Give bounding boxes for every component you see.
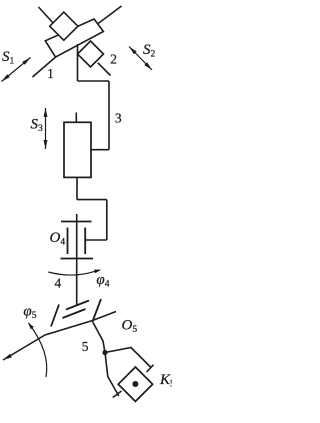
svg-text:φ5: φ5 [23, 303, 36, 321]
svg-text:O4: O4 [50, 230, 66, 248]
svg-text:φ4: φ4 [96, 272, 109, 290]
svg-text:1: 1 [47, 66, 54, 81]
svg-text:2: 2 [110, 52, 117, 67]
svg-text:S1: S1 [2, 49, 15, 67]
svg-text:K5: K5 [159, 372, 172, 390]
svg-text:O5: O5 [122, 318, 138, 336]
svg-text:S3: S3 [31, 117, 44, 135]
svg-text:3: 3 [115, 110, 122, 125]
svg-text:5: 5 [82, 339, 89, 354]
svg-text:4: 4 [55, 275, 62, 290]
svg-text:S2: S2 [143, 42, 156, 60]
